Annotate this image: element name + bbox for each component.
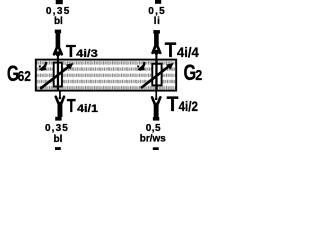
wire (through right sensor) [155,61,157,91]
sensor G62 (variable resistor, left) [39,60,74,91]
wire (top left, from continuation stub) [56,0,63,4]
wire (through left sensor) [57,60,59,91]
svg-text:0,35: 0,35 [45,123,68,134]
svg-text:T: T [66,41,76,61]
connector T4i/4 (fork and pin at box top) [153,47,161,60]
svg-text:bl: bl [54,134,63,145]
svg-text:4i/3: 4i/3 [76,48,98,60]
svg-text:4i/4: 4i/4 [177,45,199,60]
svg-text:T: T [165,39,177,62]
value label li (top right wire colour) [154,16,161,27]
value label 0,35 (bottom left wire gauge) [45,123,68,134]
wire (top right vertical segment) [153,30,160,47]
svg-text:T: T [167,93,179,116]
value label 0,35 (top left wire gauge) [46,6,70,17]
svg-text:T: T [67,95,76,116]
pin label T4i/2 [167,93,198,116]
value label bl (top left wire colour) [54,16,63,27]
svg-text:4i/2: 4i/2 [179,99,198,114]
component box (sensor housing, hatched) [36,60,176,91]
wire (bottom right vertical segment) [153,103,159,121]
svg-text:G: G [184,60,197,85]
wire (top right, from continuation stub) [155,0,161,4]
connector T4i/3 (fork and pin at box top) [54,48,62,60]
temperature icon of G2 [142,62,144,67]
connector T4i/2 (pin and fork at box bottom right) [152,91,160,104]
svg-text:0,5: 0,5 [146,123,161,134]
wire (bottom right continuation stub) [153,147,159,150]
sensor G2 (variable resistor, right) [137,61,173,91]
value label br/ws (bottom right wire colour) [140,134,167,145]
temperature icon of G62 [44,62,46,67]
component label G2 [184,60,203,85]
svg-text:bl: bl [54,16,63,27]
connector T4i/1 (pin and fork at box bottom left) [56,91,64,104]
pin label T4i/1 [67,95,98,116]
svg-text:li: li [154,16,161,27]
component label G62 [7,61,31,86]
wire (bottom left continuation stub) [55,147,61,150]
svg-text:br/ws: br/ws [140,134,167,145]
pin label T4i/4 [165,39,199,62]
value label 0,5 (top right wire gauge) [148,6,165,17]
value label bl (bottom left wire colour) [54,134,63,145]
wire (top left vertical segment) [55,30,61,49]
svg-text:2: 2 [195,67,202,84]
wire (bottom left vertical segment) [55,102,62,121]
arrow (variability) of G2 [141,66,169,88]
svg-text:4i/1: 4i/1 [77,103,98,115]
pin label T4i/3 [66,41,98,61]
arrow (variability) of G62 [40,66,69,88]
value label 0,5 (bottom right wire gauge) [146,123,161,134]
svg-text:62: 62 [18,68,31,85]
